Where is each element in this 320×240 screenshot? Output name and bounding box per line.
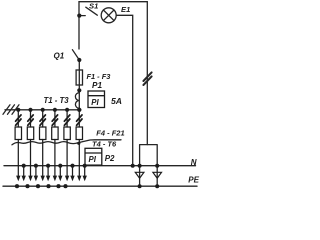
svg-text:P2: P2 xyxy=(105,154,115,163)
svg-text:PI: PI xyxy=(91,98,99,107)
svg-text:F4 - F21: F4 - F21 xyxy=(96,129,124,138)
svg-text:N: N xyxy=(191,158,197,167)
svg-text:PE: PE xyxy=(188,176,199,185)
svg-text:E1: E1 xyxy=(121,5,130,14)
svg-text:PI: PI xyxy=(89,155,97,164)
svg-text:S1: S1 xyxy=(89,2,98,11)
svg-text:Q1: Q1 xyxy=(54,52,65,61)
svg-text:P1: P1 xyxy=(92,81,102,90)
svg-text:5A: 5A xyxy=(111,96,122,106)
svg-text:F1 - F3: F1 - F3 xyxy=(87,72,112,81)
svg-text:T1 - T3: T1 - T3 xyxy=(44,96,70,105)
svg-text:T4 - T6: T4 - T6 xyxy=(92,139,117,148)
